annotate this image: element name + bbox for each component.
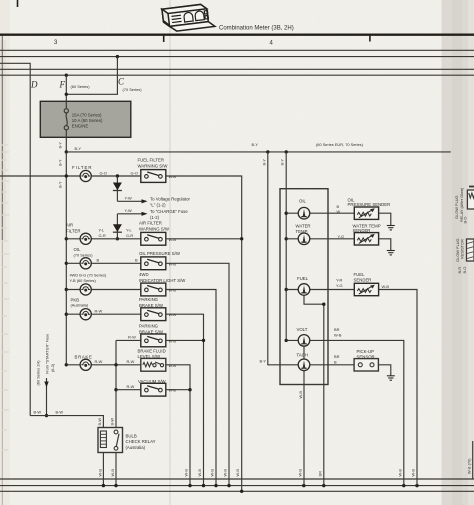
svg-text:B-W: B-W — [34, 410, 42, 415]
lamp OIL — [80, 258, 91, 269]
svg-text:G-O: G-O — [131, 170, 138, 175]
svg-text:FUEL: FUEL — [297, 276, 309, 281]
svg-text:B-W: B-W — [110, 418, 115, 426]
gauge FUEL — [285, 288, 288, 291]
bus wire 4 — [0, 74, 474, 76]
node row8 riser — [114, 388, 117, 391]
left border line — [1, 35, 3, 240]
svg-text:R-W: R-W — [95, 308, 103, 313]
svg-text:B-O: B-O — [462, 267, 467, 274]
svg-text:(60 Series): (60 Series) — [71, 84, 91, 89]
svg-text:15A (70 Series): 15A (70 Series) — [72, 113, 102, 118]
diode D1 — [113, 176, 122, 201]
svg-text:BR: BR — [317, 471, 322, 477]
svg-text:SENDER: SENDER — [354, 278, 372, 283]
svg-text:PARKING: PARKING — [139, 297, 159, 302]
svg-text:CHECK RELAY: CHECK RELAY — [126, 439, 156, 444]
wire C vertical — [66, 57, 117, 95]
wire row2 — [66, 238, 141, 240]
gauge OIL — [285, 212, 288, 215]
nodes on ground bus — [102, 484, 419, 493]
section tick 1 — [163, 34, 165, 42]
node fuse output — [65, 150, 68, 153]
section tick 2 — [369, 34, 371, 42]
svg-text:TEMP.: TEMP. — [296, 229, 309, 234]
wire TACH bottom — [303, 371, 305, 486]
svg-text:FILTER: FILTER — [72, 165, 92, 170]
svg-text:Y-L: Y-L — [126, 228, 133, 233]
svg-text:BRAKE FLUID: BRAKE FLUID — [138, 349, 166, 354]
fuse box ENGINE — [40, 101, 131, 137]
node row7 feed — [65, 363, 68, 366]
svg-text:(1-2): (1-2) — [150, 215, 160, 220]
lamp FILTER — [80, 170, 91, 181]
node row5 feed — [65, 313, 68, 316]
sender FUEL SENDER — [328, 289, 354, 291]
svg-text:BRAKE: BRAKE — [75, 355, 93, 360]
node B-Y tap 1 — [266, 150, 269, 153]
switch BRAKE FLUID LEVEL S/W — [141, 358, 166, 371]
svg-text:RESISTOR: RESISTOR — [460, 239, 465, 259]
svg-text:OIL: OIL — [74, 247, 82, 252]
wire row1 from page left — [0, 175, 80, 177]
node W-B join row2 — [240, 237, 243, 240]
wire row5 — [66, 313, 141, 315]
gauge VOLT — [285, 339, 288, 342]
wire pickup to ground — [378, 365, 390, 372]
lamp AIR FILTER — [80, 233, 91, 244]
svg-text:G-R: G-R — [126, 233, 133, 238]
bus ground 3 — [0, 490, 474, 492]
glow plug resistor box — [467, 239, 474, 261]
top section divider (thick bus) — [0, 34, 474, 36]
svg-text:B-Y: B-Y — [260, 359, 267, 364]
svg-text:To “CHARGE” Fuse: To “CHARGE” Fuse — [150, 209, 188, 214]
bus wire 2 — [0, 56, 474, 58]
svg-text:W-B: W-B — [184, 469, 189, 477]
svg-text:From “STARTER” Fuse: From “STARTER” Fuse — [45, 334, 50, 374]
svg-text:B-Y: B-Y — [280, 159, 285, 166]
node row1 feed — [65, 174, 68, 177]
svg-text:W-B: W-B — [98, 469, 103, 477]
svg-text:W-B: W-B — [298, 391, 303, 399]
wire water sender to ground — [379, 239, 391, 246]
wire right edge drop — [472, 441, 474, 479]
svg-text:W-B: W-B — [297, 469, 302, 477]
svg-text:4WD B-G (70 Series): 4WD B-G (70 Series) — [70, 273, 107, 278]
node W-B join row8 — [188, 388, 191, 391]
page crease line — [169, 0, 171, 505]
svg-text:Y-B (60 Series): Y-B (60 Series) — [70, 278, 97, 283]
svg-text:(60 Series 2H): (60 Series 2H) — [36, 360, 41, 386]
wire VOLT to bottom — [328, 340, 404, 485]
svg-text:D: D — [30, 80, 38, 90]
node diode tap — [116, 174, 119, 177]
wire VOLT bottom to TACH top — [303, 346, 305, 359]
wire oil sender to ground — [379, 213, 391, 221]
svg-text:W-B: W-B — [334, 333, 342, 338]
node fuel bottom corner — [322, 303, 325, 306]
bus wire 1 — [0, 49, 474, 51]
svg-text:B-O: B-O — [463, 217, 468, 224]
svg-text:B-Y: B-Y — [58, 142, 63, 149]
svg-text:SENSOR: SENSOR — [357, 354, 375, 359]
svg-text:R-W: R-W — [128, 335, 136, 340]
svg-text:Y-G: Y-G — [336, 283, 343, 288]
svg-text:C: C — [118, 77, 125, 87]
svg-text:B: B — [97, 258, 100, 263]
tick at very top — [17, 0, 19, 7]
svg-text:VACUUM S/W: VACUUM S/W — [138, 379, 167, 384]
svg-text:VOLT: VOLT — [297, 327, 308, 332]
switch FUEL FILTER WARNING S/W — [141, 170, 166, 183]
wire row1 lamp to switch — [91, 175, 141, 177]
svg-text:FILTER: FILTER — [66, 229, 80, 234]
node row2 feed — [65, 237, 68, 240]
svg-text:B: B — [135, 258, 138, 263]
switch VACUUM S/W — [141, 383, 166, 396]
bus ground 1 — [0, 478, 474, 480]
svg-text:Combination Meter (3B, 2H): Combination Meter (3B, 2H) — [219, 26, 294, 32]
svg-text:W-B: W-B — [223, 469, 228, 477]
node F on bus 4 — [65, 74, 68, 77]
wire W-B row7+row8 — [166, 365, 190, 486]
lamp 4WD — [80, 284, 91, 295]
lamp PKB — [80, 309, 91, 320]
svg-text:(6-3): (6-3) — [50, 363, 55, 372]
node W-B join row6 — [202, 339, 205, 342]
svg-text:(70 Series): (70 Series) — [123, 87, 143, 92]
svg-text:B-W: B-W — [97, 418, 102, 426]
wire R-W riser — [115, 340, 117, 427]
svg-text:WATER: WATER — [296, 224, 311, 229]
svg-text:B-Y: B-Y — [58, 181, 63, 188]
wire fuse to B-Y node — [65, 137, 67, 152]
ground pickup — [387, 371, 395, 380]
wire D feed from page left — [0, 63, 30, 415]
node C-F join — [65, 93, 68, 96]
wire row3 — [66, 262, 141, 264]
svg-text:B: B — [334, 360, 337, 365]
wire B-Y gauge feed — [285, 152, 287, 341]
svg-text:(60 Series EUR, 70 Series): (60 Series EUR, 70 Series) — [316, 142, 364, 147]
bus wire 3 — [0, 68, 474, 70]
sender WATER TEMP SENDER — [328, 238, 354, 240]
wire W-B row1+row2 — [166, 176, 242, 491]
svg-text:B-Y: B-Y — [58, 159, 63, 166]
wire to voltage regulator — [117, 196, 190, 208]
ground water sender — [387, 246, 395, 255]
svg-text:TACH: TACH — [297, 353, 308, 358]
svg-text:G-R: G-R — [99, 233, 106, 238]
svg-text:4WD: 4WD — [139, 272, 149, 277]
wire W-B row4 — [166, 290, 216, 486]
svg-text:BRAKE S/W: BRAKE S/W — [139, 330, 164, 335]
switch 4WD INDICATOR LIGHT S/W — [141, 283, 166, 296]
svg-text:FUEL: FUEL — [354, 272, 366, 277]
cluster box — [280, 189, 328, 385]
sensor PICK-UP SENSOR — [328, 364, 354, 366]
svg-text:INDICATOR LIGHT S/W: INDICATOR LIGHT S/W — [139, 278, 186, 283]
svg-text:B-Y: B-Y — [75, 146, 82, 151]
wire row7 — [66, 364, 141, 366]
svg-text:PICK-UP: PICK-UP — [357, 349, 375, 354]
bus ground 2 — [0, 485, 474, 487]
svg-text:Y-G: Y-G — [338, 234, 345, 239]
node B-Y tap 2 — [285, 150, 288, 153]
svg-text:Y-W: Y-W — [125, 208, 133, 213]
svg-text:(Australia): (Australia) — [71, 303, 89, 308]
svg-text:AIR: AIR — [66, 223, 73, 228]
svg-text:B-W: B-W — [56, 410, 64, 415]
svg-text:W-B: W-B — [110, 469, 115, 477]
wire F vertical to fuse — [65, 75, 67, 101]
svg-text:BRAKE S/W: BRAKE S/W — [139, 303, 164, 308]
node C on bus 2 — [116, 55, 119, 58]
left page-edge texture — [0, 0, 10, 505]
svg-text:R-W: R-W — [95, 359, 103, 364]
wire row4 — [66, 289, 141, 291]
svg-text:G-O: G-O — [100, 170, 107, 175]
svg-text:Y-R: Y-R — [336, 278, 343, 283]
svg-text:R-W: R-W — [127, 359, 135, 364]
switch PARKING BRAKE S/W — [141, 308, 166, 321]
svg-text:(Australia): (Australia) — [126, 445, 146, 450]
svg-text:AIR FILTER: AIR FILTER — [139, 221, 162, 226]
svg-text:F: F — [59, 80, 66, 90]
svg-text:SENDER: SENDER — [353, 228, 371, 233]
svg-text:R-W: R-W — [127, 384, 135, 389]
wire row8 — [116, 389, 141, 391]
svg-text:FUEL FILTER: FUEL FILTER — [138, 158, 165, 163]
glow plug relay box — [467, 190, 474, 209]
lamp BRAKE — [80, 359, 91, 370]
svg-text:WARNING S/W: WARNING S/W — [139, 227, 170, 232]
svg-text:PRESSURE SENDER: PRESSURE SENDER — [348, 202, 391, 207]
right page-edge band — [442, 0, 474, 505]
svg-text:ENGINE: ENGINE — [72, 124, 89, 129]
sender OIL PRESSURE SENDER — [328, 212, 354, 214]
wire stub above relay — [469, 186, 474, 188]
wire FUEL bottom — [304, 295, 324, 485]
svg-text:W-B: W-B — [235, 469, 240, 477]
node starter join — [45, 414, 48, 417]
wire fuel sender W-B down — [379, 290, 417, 486]
svg-text:W-B: W-B — [197, 469, 202, 477]
svg-text:Y-L: Y-L — [99, 228, 106, 233]
svg-text:(70 Series): (70 Series) — [74, 253, 94, 258]
diode D2 — [113, 214, 122, 239]
node row7 riser — [114, 363, 117, 366]
svg-text:To Voltage Regulator: To Voltage Regulator — [150, 197, 190, 202]
svg-text:BR: BR — [334, 327, 340, 332]
wire row6 — [116, 339, 141, 341]
svg-text:WARNING S/W: WARNING S/W — [138, 164, 169, 169]
svg-text:W-B: W-B — [411, 469, 416, 477]
gauge WATER TEMP — [285, 237, 288, 240]
node diode2 on row2 — [116, 237, 119, 240]
svg-text:PARKING: PARKING — [139, 324, 159, 329]
node row3 feed — [65, 262, 68, 265]
wire W-B row5+row6 — [166, 314, 204, 485]
svg-text:W-B (70): W-B (70) — [467, 458, 472, 474]
svg-text:W-B: W-B — [397, 469, 402, 477]
svg-text:BULB: BULB — [126, 434, 137, 439]
wire to CHARGE fuse — [117, 208, 188, 220]
relay BULB CHECK RELAY — [98, 428, 123, 453]
svg-text:PKB: PKB — [71, 297, 80, 302]
svg-text:OIL PRESSURE S/W: OIL PRESSURE S/W — [139, 251, 181, 256]
svg-text:BR: BR — [334, 354, 340, 359]
wire relay left pin down — [102, 453, 104, 486]
wire B-W horizontal — [30, 416, 103, 428]
combination meter icon — [162, 3, 215, 32]
wire starter feed arrow — [44, 378, 48, 416]
gauge TACH — [298, 364, 328, 366]
svg-text:W-B: W-B — [210, 469, 215, 477]
svg-text:LEVEL S/W: LEVEL S/W — [138, 354, 161, 359]
svg-text:B-Y: B-Y — [252, 142, 259, 147]
svg-text:Y-W: Y-W — [125, 196, 133, 201]
wire B-Y horizontal feed — [66, 151, 451, 153]
switch PARKING BRAKE S/W 2 — [141, 334, 166, 347]
svg-text:B-Y: B-Y — [261, 159, 266, 166]
wire W-B row3 — [166, 263, 229, 485]
switch OIL PRESSURE S/W — [141, 257, 166, 270]
svg-text:“L” (1-2): “L” (1-2) — [150, 203, 166, 208]
svg-text:OIL: OIL — [299, 199, 307, 204]
switch AIR FILTER WARNING S/W — [141, 232, 166, 245]
wire B-Y to TACH — [268, 152, 298, 365]
svg-text:10 A (60 Series): 10 A (60 Series) — [72, 118, 103, 123]
node row4 feed — [65, 288, 68, 291]
svg-text:W-B: W-B — [382, 284, 390, 289]
wire relay right pin down — [115, 453, 117, 486]
wire lamp feed vertical — [65, 152, 67, 365]
ground oil sender — [387, 221, 395, 230]
